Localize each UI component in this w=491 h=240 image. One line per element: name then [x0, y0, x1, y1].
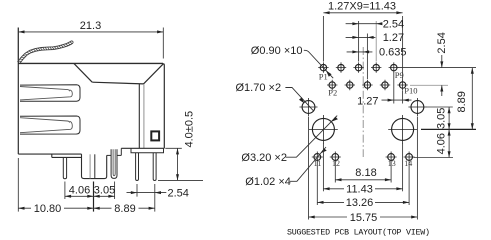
shield ground tab (U loop) [111, 149, 117, 178]
dim 8.18 [335, 163, 391, 183]
hole dia 3.20 right [388, 115, 417, 144]
shield tab link line [107, 154, 111, 156]
hole 13 [386, 152, 397, 163]
svg-text:8.18: 8.18 [355, 167, 376, 179]
svg-text:12: 12 [332, 159, 340, 168]
svg-text:1.27: 1.27 [357, 95, 378, 107]
dim 2.54 (vertical right) [441, 55, 443, 96]
dim 21.3 arrows [18, 30, 163, 33]
vertical centerline [362, 47, 364, 157]
svg-text:2.54: 2.54 [436, 32, 448, 53]
svg-text:Ø3.20 ×2: Ø3.20 ×2 [241, 152, 287, 164]
svg-text:3.05: 3.05 [436, 108, 448, 129]
svg-text:13.26: 13.26 [346, 197, 374, 209]
dim 8.89 (vertical right) [471, 68, 473, 130]
hole dia 1.70 left [300, 98, 318, 116]
hole P2 [327, 80, 337, 90]
hole 11 [312, 152, 323, 163]
dim 21.3 line [18, 31, 163, 33]
svg-text:P10: P10 [404, 86, 417, 96]
svg-text:0.635: 0.635 [379, 47, 407, 59]
body outline [18, 28, 164, 155]
svg-text:P1: P1 [319, 71, 328, 81]
dim 2.54 (pins) [127, 184, 167, 212]
contact block [82, 154, 107, 179]
row extension lines right [398, 68, 477, 158]
EMI finger 1 (upper slot) [20, 85, 80, 102]
dim 1.27 (top) [346, 34, 376, 80]
3.20 row extension (dark) [421, 128, 476, 130]
svg-text:Ø1.02 ×4: Ø1.02 ×4 [245, 176, 291, 188]
bottom flange [131, 148, 164, 152]
dim 2.54 (top) [346, 21, 382, 62]
pin (side view, thin leg) [63, 158, 66, 179]
svg-text:8.89: 8.89 [456, 91, 468, 112]
dims 4.06 / 3.05 [65, 182, 115, 212]
EMI finger 2 (lower slot) [20, 116, 80, 134]
hole 12 [330, 152, 341, 163]
hole P4 [345, 80, 355, 90]
dim 1.27X9=11.43 [323, 13, 402, 81]
svg-text:4.06: 4.06 [436, 133, 448, 154]
label dia 0.90 x10 with leader [251, 45, 333, 78]
hole P10 [397, 80, 407, 90]
hole dia 1.70 right [408, 98, 426, 116]
front face edge (dark) [138, 84, 140, 148]
hole P8 [380, 80, 390, 90]
svg-text:2.54: 2.54 [168, 187, 189, 199]
step to front face [117, 148, 164, 155]
dim 3.05 (vertical right) [448, 107, 450, 129]
dim 1.27 (P9-P10) [382, 73, 412, 104]
svg-text:4.0±0.5: 4.0±0.5 [184, 111, 196, 148]
svg-text:21.3: 21.3 [80, 20, 101, 32]
svg-text:14: 14 [404, 159, 412, 168]
bottom edge left [18, 153, 81, 155]
dim 15.75 [309, 117, 418, 220]
hole P1 [318, 62, 328, 72]
hole P7 [371, 62, 381, 72]
svg-text:11.43: 11.43 [346, 183, 373, 195]
hole P5 [353, 62, 363, 72]
svg-text:1.27: 1.27 [383, 32, 404, 44]
P10 row extension [410, 84, 448, 86]
svg-text:P2: P2 [328, 88, 337, 98]
dim 4.06 (vertical right) [448, 129, 450, 157]
svg-text:Ø1.70 ×2: Ø1.70 ×2 [236, 82, 282, 94]
hole dia 3.20 left [309, 115, 338, 144]
svg-text:2.54: 2.54 [383, 19, 404, 31]
front face edge (gray) [143, 84, 145, 148]
svg-text:13: 13 [388, 159, 396, 168]
1.70 row extension [426, 106, 453, 108]
svg-text:3.05: 3.05 [94, 185, 115, 197]
svg-text:10.80: 10.80 [34, 203, 62, 215]
bottom lip [52, 154, 82, 157]
hole P6 [362, 80, 372, 90]
P9 row extension [398, 67, 477, 69]
svg-text:1.27X9=11.43: 1.27X9=11.43 [328, 1, 396, 13]
top chamfer face [74, 64, 163, 84]
J row extension [414, 157, 454, 159]
dim 0.635 [347, 51, 373, 53]
holes: top row P1 P3 P5 P7 P9 [300, 62, 427, 162]
svg-text:4.06: 4.06 [69, 185, 90, 197]
hole 14 [404, 152, 415, 163]
PCB post window (square) [151, 131, 159, 140]
label dia 1.70 x2 with leader [236, 82, 314, 111]
dim 13.26 [317, 163, 409, 206]
svg-text:15.75: 15.75 [350, 212, 378, 224]
label dia 3.20 x2 with leader [241, 116, 338, 164]
svg-text:SUGGESTED PCB LAYOUT(TOP VIEW): SUGGESTED PCB LAYOUT(TOP VIEW) [287, 228, 430, 238]
hole P3 [336, 62, 346, 72]
dim 21.3 extension lines [17, 28, 19, 61]
label dia 1.02 x4 with leader [245, 147, 326, 188]
hole P9 [389, 62, 399, 72]
svg-text:Ø0.90 ×10: Ø0.90 ×10 [251, 45, 303, 57]
pin leg 1 [136, 153, 139, 181]
dim 11.43 [323, 143, 402, 191]
dims 10.80 / 8.89 [18, 158, 155, 212]
dim 4.0±0.5 [158, 148, 203, 180]
pin leg 2 [153, 153, 156, 181]
svg-text:8.89: 8.89 [114, 203, 135, 215]
latch spring wire [18, 41, 74, 64]
